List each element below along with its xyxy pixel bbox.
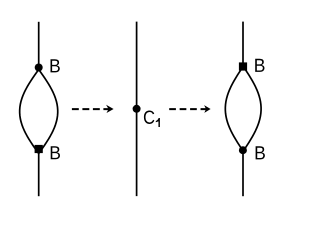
vertex dot C1 (middle) [133, 105, 141, 113]
wire: left propagator lower segment [38, 149, 40, 196]
wire: right propagator lower segment [242, 150, 244, 196]
arrow: right dashed arrow head [204, 105, 211, 113]
vertex dot B (right bottom) [239, 146, 247, 154]
label B (left top) [50, 59, 59, 72]
label B (left bottom) [51, 146, 60, 159]
arrow: right dashed arrow shaft [169, 108, 206, 110]
vertex square B (left bottom) [35, 145, 43, 153]
loop: right self-energy bubble right arc [243, 66, 261, 151]
arrow: left dashed arrow head [106, 105, 114, 113]
label C (middle) [144, 111, 154, 124]
vertex dot B (left top) [35, 64, 43, 72]
loop: left self-energy bubble left arc [20, 69, 39, 153]
label B (right bottom) [256, 146, 265, 159]
arrow: left dashed arrow shaft [72, 108, 110, 110]
wire: left propagator upper segment [38, 22, 40, 68]
vertex square B (right top) [239, 62, 247, 70]
loop: right self-energy bubble left arc [225, 66, 243, 151]
wire: right propagator upper segment [242, 22, 244, 67]
wire: middle propagator line [136, 22, 138, 197]
loop: left self-energy bubble right arc [39, 69, 58, 153]
label B (right top) [255, 59, 264, 72]
label subscript 1 of C1 [156, 118, 160, 127]
